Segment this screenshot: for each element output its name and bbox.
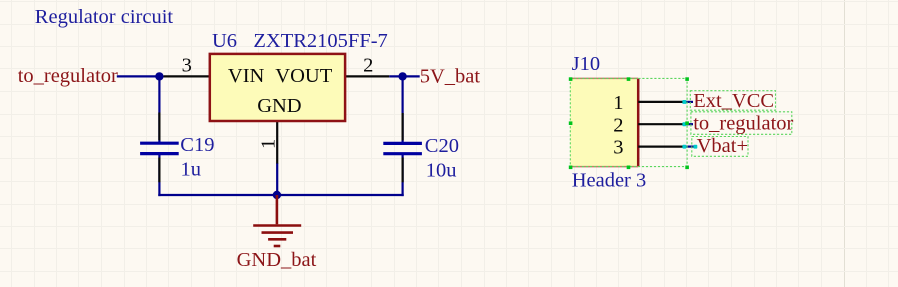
svg-text:C20: C20 — [425, 135, 459, 157]
svg-text:1: 1 — [257, 139, 279, 149]
svg-text:3: 3 — [613, 137, 623, 159]
svg-text:J10: J10 — [572, 53, 600, 75]
svg-text:GND: GND — [257, 95, 301, 117]
svg-text:1u: 1u — [181, 159, 202, 181]
svg-text:Vbat+: Vbat+ — [697, 135, 748, 157]
svg-text:10u: 10u — [426, 159, 457, 181]
svg-text:2: 2 — [613, 114, 623, 136]
svg-text:2: 2 — [363, 54, 373, 76]
svg-text:5V_bat: 5V_bat — [420, 66, 481, 88]
svg-text:VOUT: VOUT — [275, 65, 332, 87]
svg-text:to_regulator: to_regulator — [18, 65, 118, 87]
svg-text:Regulator circuit: Regulator circuit — [35, 6, 174, 28]
svg-text:1: 1 — [613, 92, 623, 114]
svg-text:Ext_VCC: Ext_VCC — [693, 90, 774, 112]
svg-text:ZXTR2105FF-7: ZXTR2105FF-7 — [253, 30, 387, 52]
svg-text:Header 3: Header 3 — [572, 170, 647, 192]
svg-text:GND_bat: GND_bat — [237, 249, 317, 271]
svg-text:VIN: VIN — [228, 65, 265, 87]
svg-text:C19: C19 — [180, 134, 214, 156]
svg-text:3: 3 — [182, 55, 192, 77]
svg-text:U6: U6 — [212, 30, 237, 52]
svg-text:to_regulator: to_regulator — [693, 113, 793, 135]
